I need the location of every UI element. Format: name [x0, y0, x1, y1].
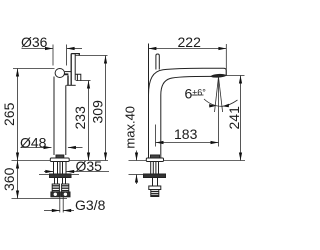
lever bar right edge — [74, 54, 76, 81]
aerator crescent at outlet — [211, 74, 226, 77]
spout inner bend + underside — [161, 76, 211, 157]
svg-text:265: 265 — [1, 102, 17, 126]
dim G3/8 — [59, 197, 61, 213]
hose tube — [152, 178, 154, 187]
lever arm upper line — [65, 71, 72, 73]
head bottom line — [66, 84, 75, 86]
svg-text:360: 360 — [1, 167, 17, 191]
mounting nut bar — [144, 174, 166, 178]
hose connector 1 (striped shank) — [52, 184, 59, 192]
head inner step line — [76, 74, 78, 81]
lever pin on spout — [156, 54, 159, 70]
241 arrows — [239, 76, 242, 84]
dim Ø35 — [44, 171, 53, 173]
hose end nut 1 (dark with highlight) — [51, 192, 60, 197]
Ø35 arrows — [45, 170, 53, 173]
body bottom collar — [151, 155, 160, 158]
dim 360 bottom extension — [12, 198, 68, 200]
svg-text:Ø35: Ø35 — [76, 158, 103, 174]
dim 183 — [155, 125, 157, 147]
dim 360 line — [17, 161, 19, 199]
hose end nut 2 (dark with highlight) — [61, 192, 70, 197]
dim 309 — [76, 55, 108, 57]
dim Ø36 — [22, 48, 54, 50]
escutcheon — [50, 158, 69, 162]
max.40 arrows — [135, 153, 138, 161]
svg-text:222: 222 — [178, 34, 202, 50]
spout outer profile (left straight edge incl. 222 extension) — [148, 44, 150, 158]
escutcheon — [146, 158, 163, 162]
dim 222 — [148, 48, 226, 50]
nut highlights — [54, 193, 57, 196]
dim 265 line — [17, 69, 19, 161]
dim Ø48 — [21, 147, 52, 149]
hose connector collar (wide) — [149, 186, 161, 190]
233 arrows — [87, 81, 90, 89]
lever arm lower thick line — [64, 73, 68, 75]
dim max.40 — [136, 151, 138, 161]
connector thread stripes — [52, 185, 59, 187]
dim 233 — [76, 80, 91, 82]
svg-text:241: 241 — [226, 106, 242, 130]
hose connector 2 (striped shank) — [62, 184, 69, 192]
faucet body left edge — [53, 77, 55, 156]
angle arc — [204, 99, 238, 106]
svg-text:G3/8: G3/8 — [75, 197, 106, 213]
265 arrows — [16, 69, 19, 77]
threaded shank — [150, 162, 152, 175]
hose tube 2 — [62, 178, 64, 185]
threaded shank with hatch — [53, 162, 55, 175]
Ø48 arrows — [44, 146, 52, 149]
body bottom collar — [56, 155, 64, 158]
hose tube 1 — [54, 178, 56, 185]
svg-text:233: 233 — [72, 106, 88, 130]
360 arrows — [16, 161, 19, 169]
G3/8 arrows — [52, 209, 60, 212]
counter bottom line — [39, 174, 50, 176]
svg-text:309: 309 — [90, 100, 106, 124]
183 arrows — [156, 141, 164, 144]
Ø36 arrows — [45, 47, 53, 50]
svg-text:Ø36: Ø36 — [21, 34, 48, 50]
faucet body right edge — [65, 85, 67, 155]
lever pivot ellipse — [55, 69, 64, 78]
svg-text:Ø48: Ø48 — [20, 135, 47, 151]
lever bar (vertical handle) — [71, 54, 79, 86]
angle lines ±6° — [215, 77, 219, 112]
angle arc arrows — [209, 104, 216, 107]
spout outer bend + top edge to right corner — [149, 68, 227, 95]
mounting nut bar — [50, 174, 72, 178]
dim 265 extension — [13, 68, 55, 70]
svg-text:max.40: max.40 — [122, 106, 137, 149]
hose connector body (striped) — [151, 190, 159, 197]
head block right of lever — [75, 74, 81, 81]
dim 241 — [223, 75, 245, 77]
222 arrows — [148, 47, 156, 50]
counter top line — [12, 160, 51, 162]
309 arrows — [104, 56, 107, 64]
svg-text:183: 183 — [174, 126, 198, 142]
lever holder left wall — [67, 75, 69, 85]
